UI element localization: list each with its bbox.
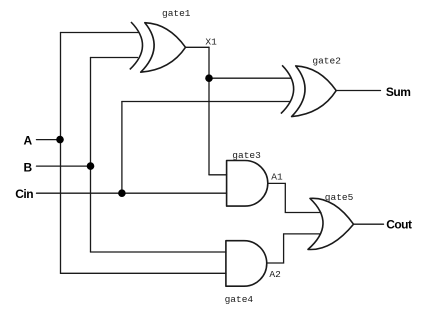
- wire X1 vertical: [208, 47, 210, 175]
- svg-text:Cout: Cout: [386, 217, 412, 231]
- xor gate2 body: [292, 66, 337, 117]
- svg-text:A2: A2: [269, 269, 281, 280]
- wire X1 to gate3 top input: [209, 174, 227, 176]
- xor gate2 input arc: [281, 65, 294, 113]
- xor gate1 body: [141, 23, 186, 72]
- wire B vertical bus: [90, 58, 92, 253]
- node junction dot on A: [56, 136, 64, 144]
- wire Cin to gate2 bottom input: [122, 101, 290, 103]
- wire Cin vertical riser: [121, 102, 123, 194]
- wire gate5 output to Cout: [354, 223, 384, 225]
- wire X1 to gate2 top input: [209, 77, 291, 79]
- wire gate4 output A2: [267, 234, 320, 263]
- wire gate2 output to Sum: [336, 90, 381, 92]
- wire A vertical bus: [60, 33, 62, 274]
- svg-text:A1: A1: [271, 172, 283, 183]
- wire A to gate1 top input: [61, 32, 140, 34]
- svg-text:A: A: [24, 134, 33, 148]
- wire Cin input to gate3 bottom input: [37, 192, 227, 194]
- svg-text:gate3: gate3: [232, 150, 261, 161]
- wire B to gate1 bottom input: [91, 57, 138, 59]
- or gate5: [308, 198, 354, 249]
- node junction dot on B: [87, 162, 95, 170]
- svg-text:Cin: Cin: [15, 187, 33, 201]
- wire B to gate4 top input: [91, 251, 227, 253]
- svg-text:gate2: gate2: [312, 56, 341, 67]
- wire gate3 output A1: [268, 183, 321, 212]
- and gate4: [226, 241, 267, 287]
- wire gate1 output to node X1: [186, 46, 210, 48]
- svg-text:X1: X1: [205, 36, 217, 47]
- svg-text:gate5: gate5: [325, 192, 354, 203]
- svg-text:gate4: gate4: [225, 294, 254, 305]
- svg-text:Sum: Sum: [386, 85, 411, 99]
- node junction dot X1: [205, 74, 213, 82]
- and gate3: [227, 161, 268, 207]
- wire A to gate4 bottom input: [61, 272, 227, 274]
- svg-text:gate1: gate1: [162, 8, 191, 19]
- xor gate1 input arc: [130, 22, 143, 69]
- svg-text:B: B: [24, 160, 33, 174]
- wire B input stub: [37, 165, 91, 167]
- node junction dot on Cin: [118, 189, 126, 197]
- wire A input stub: [37, 139, 61, 141]
